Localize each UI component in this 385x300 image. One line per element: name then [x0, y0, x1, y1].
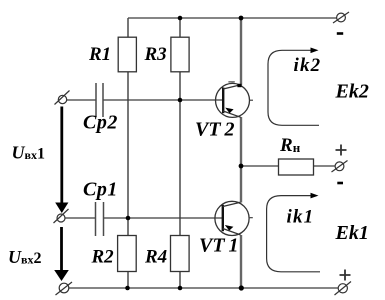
- resistor R3: [171, 37, 189, 72]
- resistor R1: [118, 37, 136, 72]
- label plus bottom-right: [340, 270, 351, 281]
- wire R1-R2 vertical line x=128: [127, 18, 129, 288]
- label minus load: [337, 182, 343, 185]
- wire R3-R4 vertical line x=180: [179, 18, 181, 288]
- node input2-R2 junction: [126, 216, 131, 221]
- terminal input2: [54, 209, 69, 223]
- node bottom R4 junction: [178, 286, 183, 291]
- arrow input2: [54, 227, 69, 281]
- svg-text:R4: R4: [144, 247, 167, 268]
- wire collector rail x=241: [240, 18, 242, 288]
- terminal input1: [55, 91, 70, 105]
- svg-text:R1: R1: [88, 44, 111, 65]
- resistor R4: [171, 236, 190, 272]
- label plus load: [336, 145, 347, 156]
- node input1-R3 junction: [178, 98, 183, 103]
- capacitor Cp2: [96, 83, 103, 117]
- svg-text:Ek1: Ek1: [335, 222, 369, 244]
- transistor VT1: [215, 201, 253, 235]
- wire ik2 current loop: [268, 48, 319, 126]
- wire top rail horizontal: [128, 17, 337, 19]
- terminal top-right: [333, 12, 349, 23]
- node bottom R2 junction: [125, 286, 130, 291]
- svg-text:R3: R3: [144, 44, 167, 65]
- terminal load-right: [332, 161, 348, 173]
- capacitor Cp1: [96, 202, 104, 236]
- transistor VT2: [216, 82, 254, 118]
- svg-text:R2: R2: [91, 247, 115, 268]
- arrow input1: [55, 107, 68, 214]
- wire input2 horizontal y=218: [65, 217, 223, 219]
- svg-text:ik2: ik2: [294, 55, 322, 76]
- svg-text:VT 1: VT 1: [199, 235, 239, 257]
- node top rail junction: [239, 16, 244, 21]
- svg-text:Ek2: Ek2: [335, 81, 369, 103]
- resistor Rn load: [279, 159, 314, 175]
- wire bottom rail horizontal y=288: [69, 287, 338, 289]
- label minus top-right: [337, 32, 343, 35]
- svg-text:Cp2: Cp2: [83, 112, 118, 134]
- svg-text:VT 2: VT 2: [195, 119, 235, 141]
- node load branch junction: [239, 164, 244, 169]
- terminal bottom-right: [335, 282, 352, 296]
- wire load branch y=166: [241, 165, 335, 167]
- wire ik1 current loop: [267, 193, 320, 272]
- node bottom rail junction: [239, 285, 244, 290]
- svg-text:Cp1: Cp1: [83, 179, 118, 201]
- terminal bottom-left: [56, 282, 73, 295]
- node top R3 junction: [178, 16, 183, 21]
- wire input1 horizontal y=100: [67, 99, 224, 101]
- svg-text:ik1: ik1: [287, 207, 315, 228]
- resistor R2: [118, 236, 137, 272]
